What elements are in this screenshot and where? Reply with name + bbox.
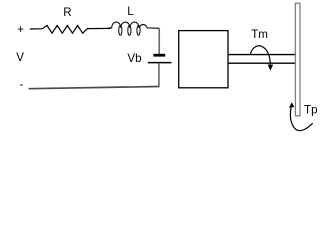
svg-text:R: R (63, 6, 71, 19)
svg-text:Tm: Tm (251, 28, 268, 41)
svg-text:+: + (17, 23, 24, 36)
svg-text:-: - (20, 78, 24, 91)
svg-text:L: L (127, 5, 134, 18)
svg-text:V: V (16, 51, 24, 64)
svg-text:Vb: Vb (127, 52, 141, 65)
svg-text:Tp: Tp (304, 104, 318, 117)
